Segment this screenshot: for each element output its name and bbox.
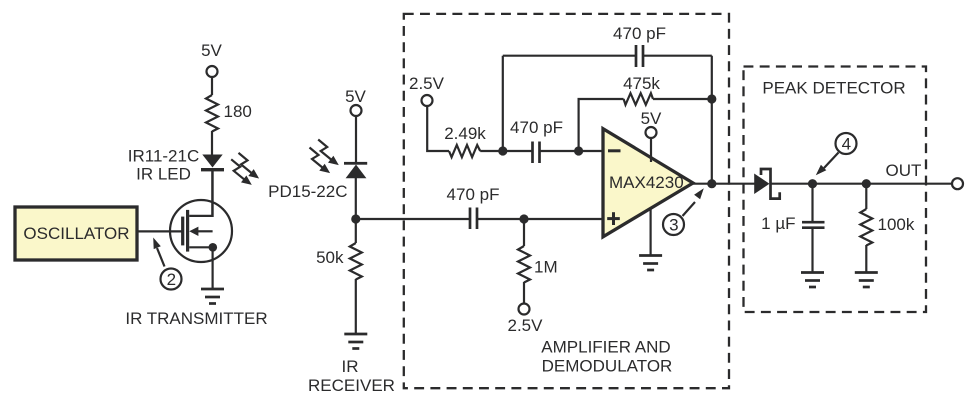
2.5V terminal (1M bias) [519, 304, 530, 315]
svg-text:2: 2 [167, 270, 176, 289]
transistor Q1 (MOSFET) [170, 171, 232, 289]
wire 5V to photodiode [355, 116, 357, 162]
wire 475k to node C [653, 98, 712, 100]
resistor 50k [350, 243, 362, 280]
resistor 2.49k [449, 145, 480, 157]
svg-text:IR11-21C: IR11-21C [128, 147, 200, 166]
wire diode to OUT [771, 183, 953, 185]
wire 50k to ground [355, 279, 357, 334]
IR emission arrow 1 [239, 153, 260, 179]
wire 2.5V to R 2.49k [427, 106, 449, 151]
svg-text:2.49k: 2.49k [444, 124, 486, 143]
wire node B to op-amp - input [579, 150, 603, 152]
svg-text:IR TRANSMITTER: IR TRANSMITTER [125, 309, 267, 328]
svg-text:470 pF: 470 pF [447, 185, 500, 204]
node: receiver output [351, 214, 360, 223]
ground (transmitter) [201, 289, 224, 304]
svg-text:IR LED: IR LED [136, 165, 191, 184]
op-amp output wire [692, 183, 755, 185]
OSCILLATOR block [15, 207, 137, 260]
IR LED D1 symbol [202, 155, 222, 168]
photodiode PD15-22C symbol [344, 162, 367, 165]
wire node B up to 475k [579, 99, 624, 151]
resistor 1M [518, 246, 530, 283]
node E (peak hold) [808, 179, 817, 188]
minus input glyph [608, 149, 621, 152]
capacitor 470 pF (inverting input) [503, 150, 533, 152]
node B (inverting input) [574, 146, 583, 155]
svg-text:RECEIVER: RECEIVER [308, 376, 395, 395]
wire node D down to 1M [523, 219, 525, 246]
resistor 475k feedback [624, 93, 653, 105]
svg-text:2.5V: 2.5V [409, 74, 445, 93]
resistor 100k [860, 209, 872, 246]
svg-text:PEAK DETECTOR: PEAK DETECTOR [762, 79, 905, 98]
wire 100k to ground [865, 245, 867, 273]
callout circled 2 [153, 238, 181, 290]
svg-text:AMPLIFIER AND: AMPLIFIER AND [541, 338, 670, 357]
svg-text:2.5V: 2.5V [508, 316, 544, 335]
node A (feedback tap) [498, 146, 507, 155]
svg-text:5V: 5V [201, 41, 222, 60]
svg-text:OUT: OUT [886, 161, 922, 180]
5V terminal circle (receiver) [351, 105, 362, 116]
svg-text:1M: 1M [534, 258, 558, 277]
svg-text:5V: 5V [345, 87, 366, 106]
svg-text:1 µF: 1 µF [761, 214, 795, 233]
node: op-amp output [707, 179, 716, 188]
OUT terminal circle [952, 178, 963, 189]
capacitor 470 pF (non-inverting input) [356, 218, 470, 220]
capacitor 470 pF (top feedback) [636, 45, 643, 67]
peak detector dashed box [744, 67, 927, 313]
svg-text:IR: IR [342, 357, 359, 376]
svg-text:3: 3 [669, 216, 678, 235]
svg-text:PD15-22C: PD15-22C [268, 182, 347, 201]
wire LED to MOSFET drain [211, 171, 213, 217]
op-amp ground wire [649, 209, 651, 256]
top feedback wire right [643, 55, 712, 57]
callout circled 3 [663, 188, 704, 235]
node D (non-inverting input) [519, 214, 528, 223]
wire cap to node B [540, 150, 580, 152]
5V terminal circle (transmitter) [207, 66, 218, 77]
node C (feedback/output junction) [707, 94, 716, 103]
top feedback wire left [503, 55, 636, 57]
op-amp U1 MAX4230 [603, 129, 693, 237]
ground (1 uF) [801, 273, 824, 288]
svg-text:470 pF: 470 pF [613, 24, 666, 43]
wire node A up to top feedback [502, 56, 504, 151]
callout circled 4 [816, 133, 857, 175]
wire 1M to 2.5V terminal [523, 282, 525, 304]
svg-text:4: 4 [842, 135, 851, 154]
svg-text:475k: 475k [623, 74, 660, 93]
wire 5V terminal to R1 [211, 77, 213, 95]
svg-text:DEMODULATOR: DEMODULATOR [542, 357, 673, 376]
wire node F to 100k [865, 184, 867, 209]
wire node E to capacitor [811, 184, 813, 222]
feedback vertical wire to output [711, 56, 713, 184]
IR emission arrow 2 [231, 159, 252, 185]
node F (output divider) [862, 179, 871, 188]
capacitor 1 uF [802, 222, 825, 228]
wire node D to op-amp + input [524, 218, 603, 220]
svg-text:5V: 5V [641, 109, 662, 128]
svg-text:100k: 100k [878, 215, 915, 234]
wire capacitor to ground [811, 228, 813, 273]
IR incoming arrow 1 [318, 140, 339, 166]
ground (op-amp) [639, 256, 662, 271]
wire oscillator to gate [137, 230, 182, 232]
wire R1 to LED [211, 131, 213, 155]
svg-text:180: 180 [224, 102, 252, 121]
svg-text:50k: 50k [316, 248, 344, 267]
amplifier/demodulator dashed box [404, 14, 729, 388]
Schottky diode D2 [754, 174, 769, 195]
svg-text:MAX4230: MAX4230 [609, 173, 684, 192]
svg-text:OSCILLATOR: OSCILLATOR [23, 224, 129, 243]
wire 2.49k to node A [480, 150, 503, 152]
wire photodiode to node [355, 178, 357, 243]
plus input glyph [607, 217, 620, 220]
IR incoming arrow 2 [310, 148, 331, 174]
wire cap to node D [477, 218, 524, 220]
svg-text:470 pF: 470 pF [510, 118, 563, 137]
resistor 180 [206, 95, 218, 132]
ground (receiver) [344, 334, 367, 349]
ground (100k) [855, 273, 878, 288]
